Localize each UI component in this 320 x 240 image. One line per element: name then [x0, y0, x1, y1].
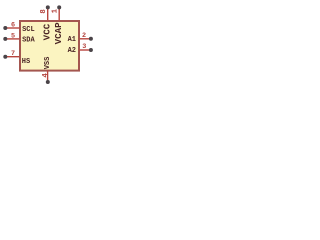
pin HS (7) wire [5, 56, 20, 58]
pin HS junction dot [3, 55, 7, 59]
pin VSS (4) wire [47, 71, 49, 81]
pin SDA junction dot [3, 37, 7, 41]
pin VCC junction dot [46, 5, 50, 9]
pin VCAP (1) wire [58, 9, 60, 21]
svg-text:SCL: SCL [22, 26, 35, 34]
svg-text:A2: A2 [68, 47, 76, 55]
svg-text:5: 5 [11, 33, 15, 41]
pin VCC (8) wire [47, 9, 49, 21]
pin VCAP junction dot [57, 5, 61, 9]
svg-text:8: 8 [40, 9, 48, 14]
svg-text:VCC: VCC [42, 23, 53, 40]
pin SDA (5) wire [5, 38, 20, 40]
pin A1 (2) wire [80, 38, 91, 40]
svg-text:4: 4 [42, 73, 50, 78]
svg-text:A1: A1 [68, 36, 76, 44]
pin A2 junction dot [89, 48, 93, 52]
pin SCL (6) wire [5, 27, 20, 29]
svg-text:VCAP: VCAP [53, 22, 64, 45]
svg-text:VSS: VSS [44, 57, 52, 70]
svg-text:2: 2 [82, 32, 86, 40]
svg-text:7: 7 [11, 50, 15, 58]
svg-text:HS: HS [22, 58, 30, 66]
IC body [20, 21, 79, 71]
svg-text:SDA: SDA [22, 37, 35, 45]
pin A2 (3) wire [80, 49, 91, 51]
svg-text:1: 1 [52, 8, 60, 13]
pin SCL junction dot [3, 26, 7, 30]
svg-text:6: 6 [11, 22, 15, 30]
pin A1 junction dot [89, 37, 93, 41]
pin VSS junction dot [46, 80, 50, 84]
svg-text:3: 3 [82, 43, 86, 51]
